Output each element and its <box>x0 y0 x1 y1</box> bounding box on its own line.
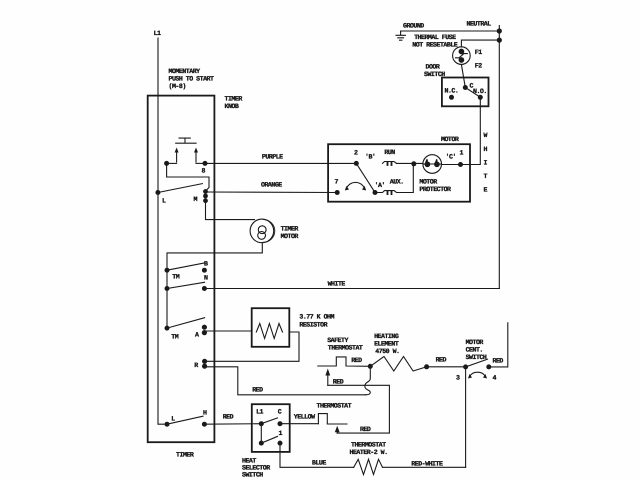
wire RED-WHITE <box>383 466 466 468</box>
wire fuse F1 to neutral <box>461 40 499 47</box>
heat selector blade lower <box>261 436 277 443</box>
svg-text:TM: TM <box>171 334 178 341</box>
svg-text:THERMOSTAT: THERMOSTAT <box>351 442 386 449</box>
switch blade TM1 to B <box>167 263 205 270</box>
thermostat contact arrow <box>335 426 340 433</box>
door switch contact N.C. <box>449 95 454 100</box>
svg-text:NOT RESETABLE: NOT RESETABLE <box>412 42 457 49</box>
svg-text:L1: L1 <box>256 409 263 416</box>
cent switch blade <box>466 359 488 367</box>
svg-text:4: 4 <box>493 375 497 382</box>
thermostat heater zigzag <box>354 459 383 474</box>
svg-text:HEAT: HEAT <box>242 458 256 465</box>
svg-text:1: 1 <box>460 150 464 157</box>
heat selector contact L1 <box>259 421 264 426</box>
svg-text:SELECTOR: SELECTOR <box>242 465 270 472</box>
label THERMOSTAT HEATER-2 W. <box>350 442 388 457</box>
heat selector blade L1-C <box>261 418 277 424</box>
heat selector contact C <box>278 421 283 426</box>
label HEATING ELEMENT 4750 W. <box>374 333 399 355</box>
svg-text:TM: TM <box>172 274 179 281</box>
svg-text:RESISTOR: RESISTOR <box>299 322 327 329</box>
motor protector U <box>423 155 442 174</box>
wire NEUTRAL vertical <box>498 26 500 289</box>
wire RED element to cent switch <box>427 366 466 368</box>
motor contact C <box>458 162 463 167</box>
contact TM1 dot <box>165 268 170 273</box>
svg-text:E: E <box>484 187 488 194</box>
svg-text:A: A <box>195 332 199 339</box>
wire RUN to protector <box>397 162 424 164</box>
wire R bottom red <box>205 367 366 395</box>
svg-text:M: M <box>194 196 198 203</box>
contact L dot <box>155 190 160 195</box>
contact L bottom dot <box>165 422 170 427</box>
svg-text:PURPLE: PURPLE <box>262 154 283 161</box>
svg-text:'A': 'A' <box>375 182 385 189</box>
wire RED H to heat selector <box>204 423 261 426</box>
svg-text:SWITCH: SWITCH <box>466 354 487 361</box>
contact A dots <box>202 325 207 336</box>
svg-text:RED-WHITE: RED-WHITE <box>411 461 443 468</box>
door switch blade C to NO <box>465 88 480 98</box>
wire N.O. down to motor C <box>462 97 480 164</box>
svg-text:T: T <box>484 173 488 180</box>
wire contact 3 down to red-white <box>465 367 467 467</box>
svg-text:RED: RED <box>360 426 371 433</box>
svg-text:B: B <box>204 261 208 268</box>
contact TM2 dot <box>165 286 170 291</box>
svg-text:GROUND: GROUND <box>403 23 424 30</box>
label TIMER KNOB <box>225 96 243 111</box>
motor contact B <box>354 161 359 166</box>
junction neutral-fuse <box>497 38 502 43</box>
resistor element zigzag <box>256 324 282 339</box>
switch blade L to H <box>167 416 203 424</box>
svg-text:HEATING: HEATING <box>374 333 399 340</box>
svg-text:1: 1 <box>279 430 283 437</box>
svg-text:CENT.: CENT. <box>466 347 483 354</box>
svg-text:MOTOR: MOTOR <box>281 233 299 240</box>
wire WHITE to neutral <box>204 288 499 290</box>
svg-text:L1: L1 <box>154 30 161 37</box>
label HEAT SELECTOR SWITCH <box>242 458 270 479</box>
label TIMER MOTOR <box>281 226 299 241</box>
svg-text:BLUE: BLUE <box>312 460 326 467</box>
contact M dots <box>203 189 208 203</box>
svg-text:WHITE: WHITE <box>328 281 346 288</box>
svg-text:F1: F1 <box>475 49 482 56</box>
switch blade TM2 to N <box>167 282 205 288</box>
svg-text:N.O.: N.O. <box>473 88 487 95</box>
svg-text:MOTOR: MOTOR <box>441 136 459 143</box>
push-button arrow left <box>175 148 179 163</box>
svg-text:H: H <box>203 410 207 417</box>
label DOOR SWITCH <box>424 64 445 79</box>
svg-text:RED: RED <box>351 357 362 364</box>
label WHITE vertical <box>484 132 488 194</box>
wire L1 vertical down left side to L contact of timer <box>158 38 164 424</box>
switch blade TM3 to A <box>167 318 205 328</box>
label 3.77 K OHM RESISTOR <box>299 314 334 329</box>
thermal fuse F <box>453 47 471 65</box>
motor switch blade B to A <box>356 163 375 192</box>
heating element zigzag <box>370 357 426 372</box>
switch blade L to M <box>158 184 203 193</box>
motor contact 7 <box>335 190 340 195</box>
svg-text:RED: RED <box>493 358 504 365</box>
svg-text:ELEMENT: ELEMENT <box>374 341 399 348</box>
svg-text:3.77 K OHM: 3.77 K OHM <box>299 314 334 321</box>
svg-text:2: 2 <box>354 150 358 157</box>
heat selector lower-left contact <box>259 441 264 446</box>
timer motor <box>250 219 275 243</box>
door switch contact N.O. <box>478 95 483 100</box>
svg-text:N.C.: N.C. <box>445 88 459 95</box>
svg-text:MOTOR: MOTOR <box>466 339 484 346</box>
svg-text:F2: F2 <box>475 63 482 70</box>
junction heating element left <box>368 364 373 369</box>
svg-text:R: R <box>194 362 198 369</box>
svg-text:TIMER: TIMER <box>176 452 194 459</box>
svg-text:YELLOW: YELLOW <box>294 414 315 421</box>
svg-text:SAFETY: SAFETY <box>327 337 348 344</box>
label SAFETY THERMOSTAT <box>327 337 363 352</box>
svg-text:W: W <box>484 132 488 139</box>
svg-text:RED: RED <box>436 357 447 364</box>
wire fuse F2 to door switch C <box>461 64 465 87</box>
wire heat selector 1 down to blue <box>280 443 354 467</box>
wire ground to neutral <box>401 30 500 32</box>
svg-text:'B': 'B' <box>365 154 375 161</box>
push-button right contact 8 <box>196 161 208 166</box>
svg-text:DOOR: DOOR <box>426 64 440 71</box>
push-button left contact <box>164 161 177 166</box>
svg-text:RED: RED <box>223 414 234 421</box>
safety thermostat <box>318 357 371 366</box>
motor cent switch contact 4 <box>486 364 491 369</box>
svg-text:AUX.: AUX. <box>390 179 404 186</box>
wire timer motor to TM chain <box>167 243 262 270</box>
label THERMAL FUSE NOT RESETABLE <box>412 34 457 49</box>
svg-text:THERMAL FUSE: THERMAL FUSE <box>414 34 456 41</box>
wire protector to C <box>441 164 479 166</box>
svg-text:TIMER: TIMER <box>225 96 243 103</box>
wire PURPLE <box>205 162 356 164</box>
svg-text:THERMOSTAT: THERMOSTAT <box>328 344 363 351</box>
svg-text:KNOB: KNOB <box>225 103 239 110</box>
svg-text:THERMOSTAT: THERMOSTAT <box>317 403 352 410</box>
thermostat bump <box>318 414 347 424</box>
label MOTOR PROTECTOR <box>419 179 451 194</box>
motor cent switch contact 3 <box>463 364 468 369</box>
contact TM3 dot <box>165 326 170 331</box>
momentary push button actuator <box>176 138 196 143</box>
svg-text:8: 8 <box>202 168 206 175</box>
wire YELLOW C to thermostat <box>280 423 318 425</box>
svg-text:RUN: RUN <box>384 149 395 156</box>
svg-text:PUSH TO START: PUSH TO START <box>169 76 214 83</box>
svg-text:C: C <box>278 409 282 416</box>
heat selector vertical wire <box>260 424 262 443</box>
contact N dot <box>202 286 207 291</box>
svg-text:7: 7 <box>335 179 339 186</box>
junction right of RUN <box>411 161 416 166</box>
wire resistor to R top <box>205 332 299 361</box>
svg-text:RED: RED <box>252 387 263 394</box>
svg-text:(M-8): (M-8) <box>169 83 186 90</box>
svg-text:HEATER-2 W.: HEATER-2 W. <box>350 449 388 456</box>
svg-text:L: L <box>171 416 175 423</box>
svg-text:TIMER: TIMER <box>281 226 299 233</box>
svg-text:3: 3 <box>456 375 460 382</box>
motor box <box>328 144 470 202</box>
wire A to resistor <box>204 330 251 332</box>
door switch box <box>442 78 489 107</box>
wire crossover jog to heating element junction <box>365 366 371 395</box>
svg-text:RED: RED <box>333 379 344 386</box>
safety thermostat contact arrow <box>325 369 330 386</box>
AUX winding <box>375 164 413 195</box>
heat selector switch box <box>252 404 290 452</box>
svg-text:SWITCH: SWITCH <box>242 472 263 479</box>
svg-text:N: N <box>204 275 208 282</box>
wire safety thermostat arrow to operating thermostat arrow <box>328 385 390 433</box>
svg-text:4750 W.: 4750 W. <box>375 348 399 355</box>
svg-text:MOTOR: MOTOR <box>419 179 437 186</box>
RUN winding <box>383 162 397 166</box>
motor arc arrow 7-A <box>345 182 366 190</box>
ground symbol <box>396 31 405 40</box>
svg-text:H: H <box>484 146 488 153</box>
label MOTOR CENT. SWITCH <box>466 339 487 361</box>
wire M to timer motor <box>206 201 255 220</box>
svg-text:L: L <box>162 198 166 205</box>
svg-text:ORANGE: ORANGE <box>261 182 282 189</box>
wire RED from contact 4 up <box>489 323 508 367</box>
timer box <box>148 96 215 443</box>
svg-text:NEUTRAL: NEUTRAL <box>467 21 492 28</box>
door switch contact C <box>463 85 468 90</box>
push-button arrow right <box>194 148 198 163</box>
contact H dot <box>202 422 207 427</box>
svg-text:MOMENTARY: MOMENTARY <box>169 68 201 75</box>
junction heating element right <box>424 364 429 369</box>
motor contact A <box>373 190 378 195</box>
wire from left push contact down to M <box>167 163 209 191</box>
junction neutral-ground <box>497 28 502 33</box>
svg-text:'C': 'C' <box>446 154 456 161</box>
TM chain vertical wire <box>166 270 168 328</box>
resistor box <box>252 308 290 347</box>
svg-text:PROTECTOR: PROTECTOR <box>419 186 451 193</box>
heat selector lower-right contact <box>278 441 283 446</box>
cent switch arc arrow <box>468 372 487 378</box>
contact R dots <box>202 359 207 369</box>
svg-text:I: I <box>484 160 488 167</box>
wire ORANGE <box>206 191 338 194</box>
contact B dot <box>202 268 207 273</box>
label MOMENTARY PUSH TO START (M-8) <box>169 68 214 90</box>
